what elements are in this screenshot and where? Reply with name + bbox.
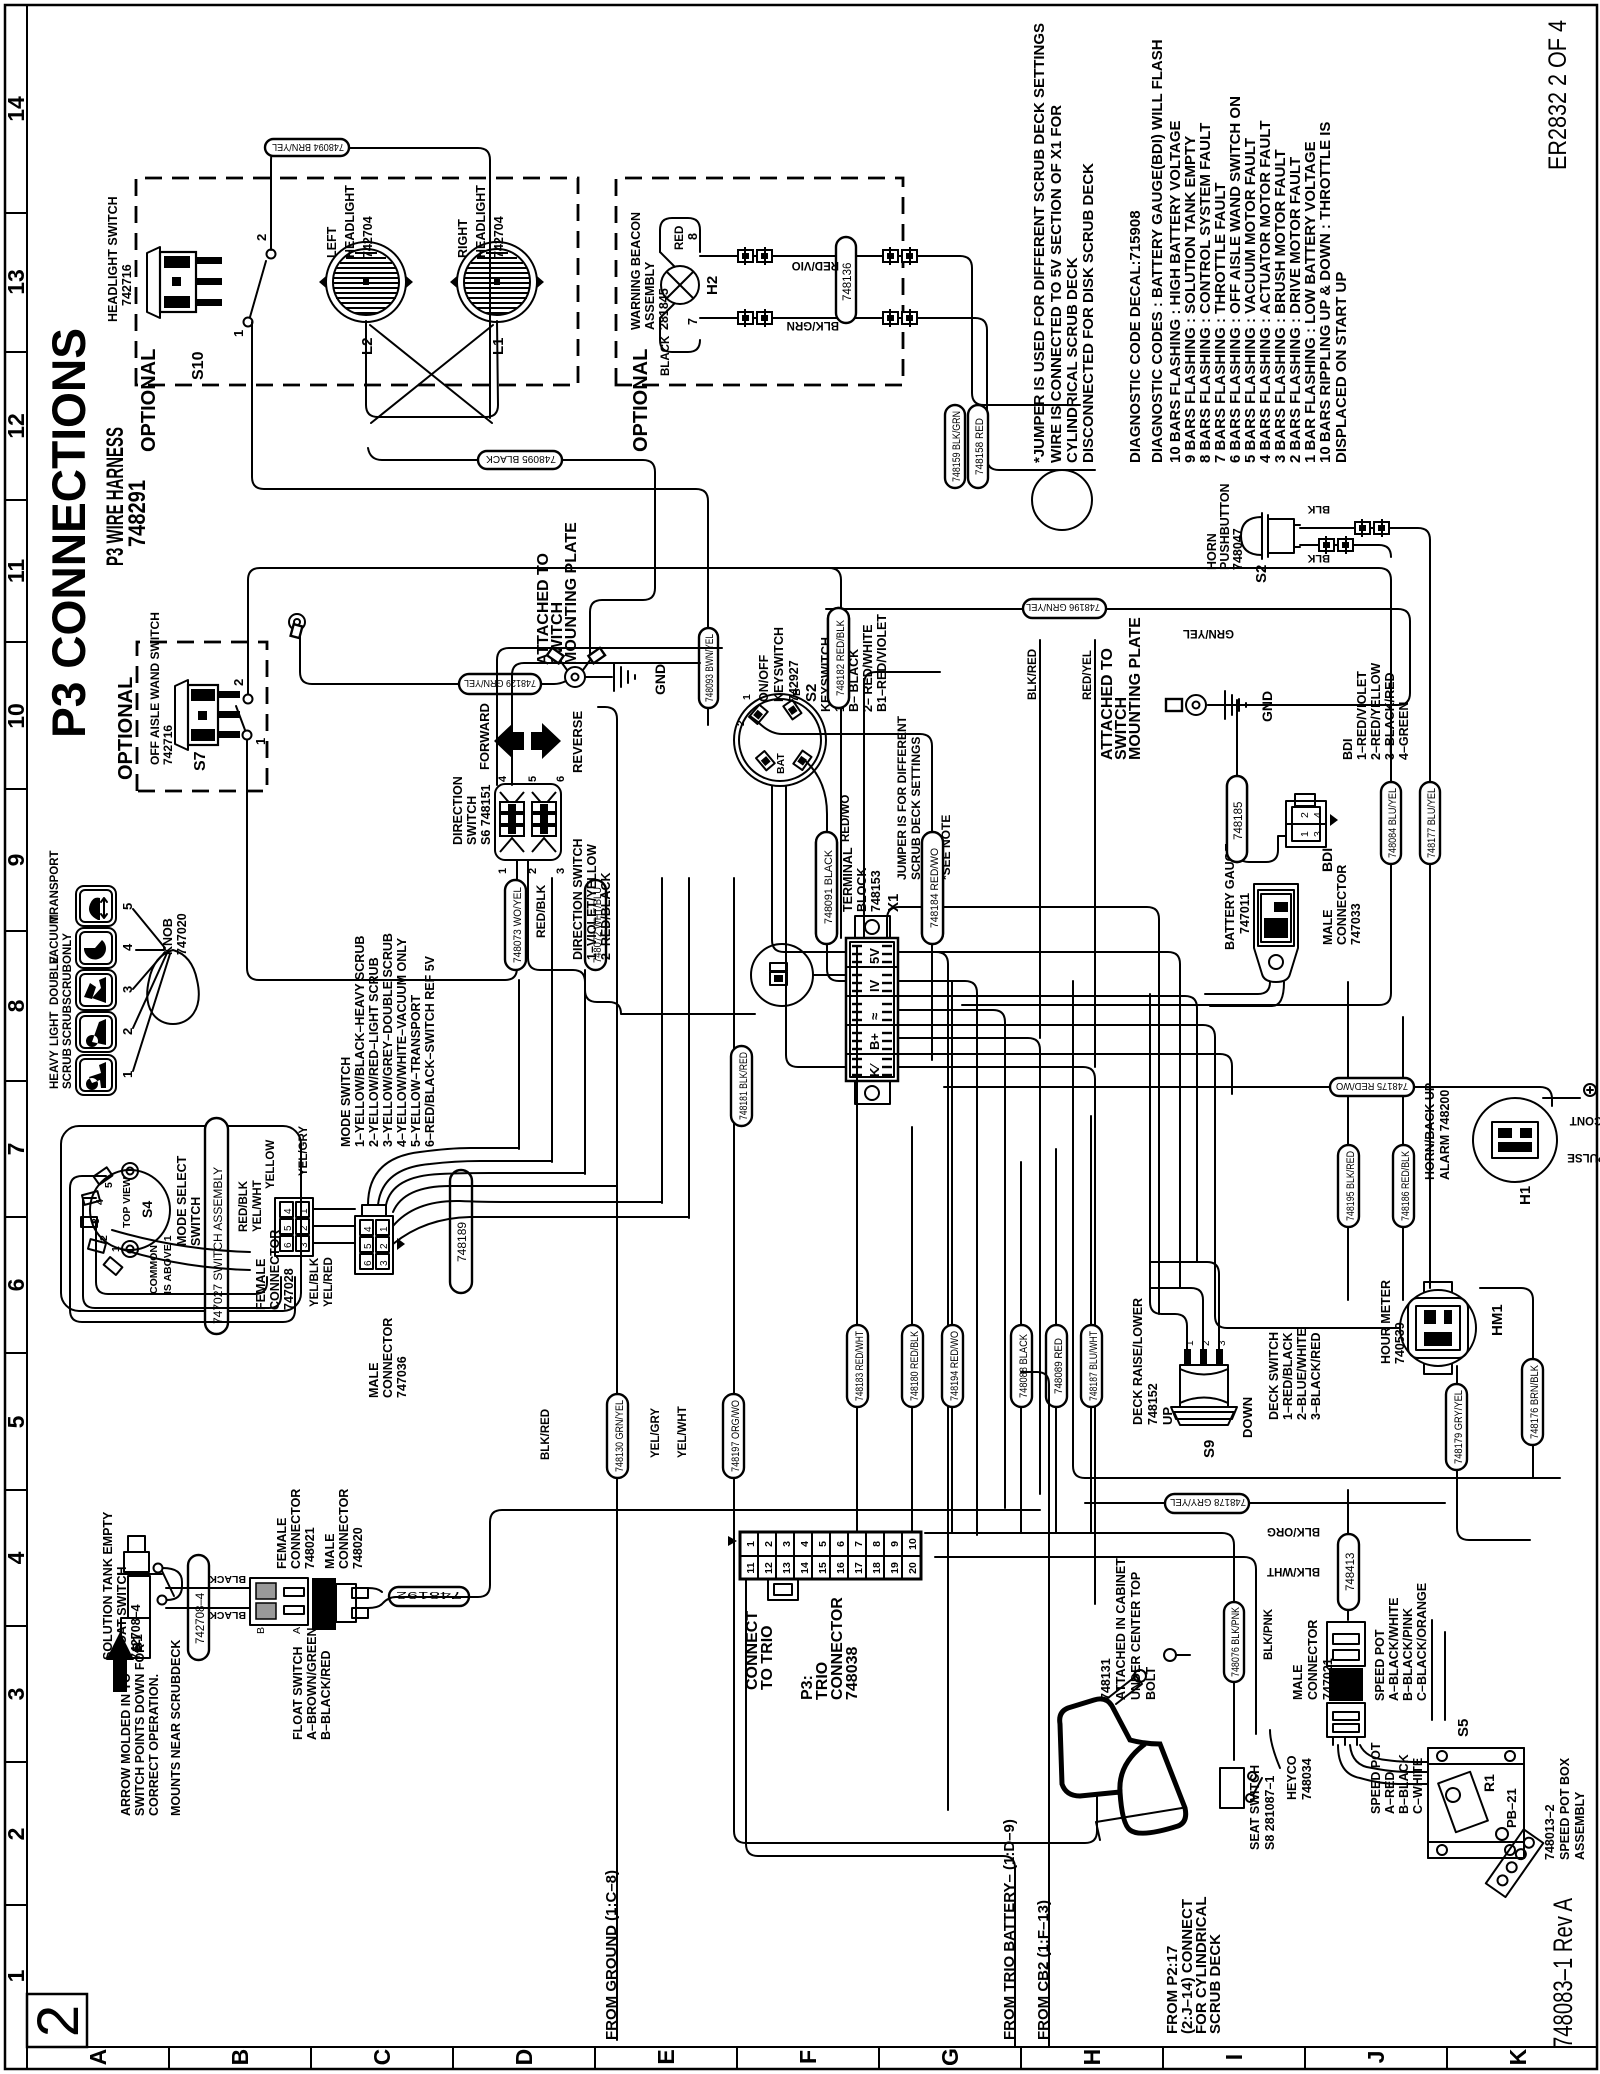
svg-text:3–BLACK/RED: 3–BLACK/RED (1383, 672, 1397, 760)
wire label 748185 (1227, 776, 1247, 862)
svg-text:2: 2 (527, 868, 539, 874)
svg-text:CONNECTOR: CONNECTOR (337, 1489, 351, 1569)
svg-text:ALARM 748200: ALARM 748200 (1438, 1090, 1452, 1180)
svg-text:S6 748151: S6 748151 (479, 784, 493, 845)
svg-text:1–YELLOW/BLACK–HEAVY SCRUB: 1–YELLOW/BLACK–HEAVY SCRUB (353, 936, 367, 1147)
hour meter HM1 (1379, 1280, 1506, 1374)
svg-text:2: 2 (763, 1541, 775, 1547)
svg-text:748131: 748131 (1099, 1658, 1113, 1700)
svg-text:KEYSWITCH: KEYSWITCH (772, 627, 786, 702)
svg-text:S9: S9 (1201, 1440, 1218, 1458)
748189 harness pill (450, 1170, 472, 1293)
svg-text:2: 2 (1299, 812, 1311, 818)
horn/backup alarm H1 (1423, 1083, 1600, 1205)
speed pot wires (1432, 1620, 1445, 1720)
svg-text:CONNECTOR: CONNECTOR (1306, 1620, 1320, 1700)
svg-text:ASSEMBLY: ASSEMBLY (643, 261, 657, 330)
battery gauge feed wires (1205, 982, 1284, 1006)
svg-text:1: 1 (253, 738, 268, 745)
svg-text:748192: 748192 (396, 1589, 462, 1601)
svg-text:11: 11 (745, 1562, 757, 1573)
svg-text:HM1: HM1 (1489, 1304, 1506, 1336)
svg-text:748095 BLACK: 748095 BLACK (486, 453, 556, 465)
svg-text:G: G (937, 2048, 963, 2066)
svg-text:TRANSPORT: TRANSPORT (49, 850, 61, 922)
svg-text:748073 WO/YEL: 748073 WO/YEL (512, 887, 524, 963)
svg-text:13: 13 (781, 1562, 793, 1574)
ruler row ticks and letters (A-K) (85, 2047, 1531, 2069)
svg-text:4: 4 (94, 1199, 106, 1205)
wire label 748158 RED (968, 405, 988, 488)
svg-text:PB–21: PB–21 (1504, 1788, 1519, 1828)
direction switch legend (571, 838, 613, 960)
svg-text:748083–1 Rev A: 748083–1 Rev A (1548, 1898, 1578, 2048)
from notes (603, 1819, 1224, 2040)
keyswitch gnd to ring terminal 2 (748196 GRN/YEL) (826, 609, 1410, 705)
svg-text:RIGHT: RIGHT (456, 219, 470, 258)
mounting bracket (1486, 1829, 1544, 1897)
svg-text:RED/BLK: RED/BLK (238, 1180, 250, 1232)
wire label 748180 RED/BLK (902, 1325, 923, 1407)
svg-text:BLACK: BLACK (660, 335, 672, 376)
svg-text:748291: 748291 (124, 480, 151, 547)
svg-text:748181 BLK/RED: 748181 BLK/RED (738, 1052, 750, 1120)
headlight cross wires (370, 325, 493, 423)
svg-text:4–YELLOW/WHITE–VACUUM ONLY: 4–YELLOW/WHITE–VACUUM ONLY (395, 937, 409, 1147)
svg-text:748177 BLU/YEL: 748177 BLU/YEL (1426, 788, 1438, 858)
svg-text:BOLT: BOLT (1144, 1667, 1158, 1700)
svg-text:GND: GND (652, 664, 668, 695)
svg-text:S7: S7 (192, 751, 209, 771)
S7 wire to bus (248, 568, 1391, 1005)
S7 contact 2 (244, 695, 253, 704)
svg-text:748186 RED/BLK: 748186 RED/BLK (1400, 1150, 1412, 1221)
svg-text:4: 4 (497, 775, 509, 782)
svg-text:DIRECTION SWITCH: DIRECTION SWITCH (571, 838, 585, 960)
svg-text:P3 CONNECTIONS: P3 CONNECTIONS (42, 328, 95, 738)
svg-text:C–BLACK/ORANGE: C–BLACK/ORANGE (1415, 1583, 1429, 1701)
svg-text:748178 GRY/YEL: 748178 GRY/YEL (1170, 1496, 1246, 1508)
svg-text:FEMALE: FEMALE (275, 1518, 289, 1569)
svg-text:CORRECT OPERATION.: CORRECT OPERATION. (147, 1674, 161, 1816)
wire label 748093 BWN/YEL (699, 628, 718, 708)
keyswitch S2 (734, 627, 826, 786)
float switch wires (166, 1588, 250, 1608)
svg-text:2–RED/BLACK: 2–RED/BLACK (599, 872, 613, 960)
svg-text:748194 RED/WO: 748194 RED/WO (949, 1331, 961, 1401)
svg-text:ASSEMBLY: ASSEMBLY (1573, 1791, 1587, 1860)
svg-text:HEADLIGHT: HEADLIGHT (474, 185, 488, 258)
svg-text:C: C (369, 2049, 395, 2066)
wire BDI connector to 748185/GRN-YEL (1237, 700, 1286, 862)
deck raise/lower switch S9 (1131, 1298, 1255, 1458)
svg-text:5–YELLOW–TRANSPORT: 5–YELLOW–TRANSPORT (409, 995, 423, 1147)
wire label 748073 WO/YEL (505, 880, 526, 970)
connector-to-connector wires (313, 1209, 355, 1243)
svg-text:747028: 747028 (282, 1268, 296, 1310)
svg-text:748152: 748152 (1146, 1383, 1160, 1425)
svg-text:15: 15 (817, 1562, 829, 1574)
svg-text:1: 1 (299, 1208, 310, 1214)
svg-text:748136: 748136 (842, 263, 854, 301)
svg-text:A–BROWN/GREEN: A–BROWN/GREEN (305, 1627, 319, 1740)
S7 switch blade (236, 706, 245, 730)
svg-text:S8 281087–1: S8 281087–1 (1263, 1776, 1277, 1850)
note circle (1032, 470, 1092, 530)
svg-text:BLK/WHT: BLK/WHT (1267, 1565, 1320, 1577)
S10 switch blade (250, 261, 266, 317)
svg-text:DOWN: DOWN (1240, 1397, 1255, 1438)
svg-text:748187 BLU/WHT: 748187 BLU/WHT (1088, 1331, 1100, 1401)
wire label 748194 RED/WO (942, 1325, 963, 1407)
svg-text:YEL/RED: YEL/RED (323, 1257, 335, 1307)
svg-text:B–BLACK/PINK: B–BLACK/PINK (1401, 1608, 1415, 1701)
horn pushbutton S2 (1205, 483, 1300, 583)
svg-text:7: 7 (3, 1143, 29, 1156)
svg-text:S4: S4 (139, 1201, 155, 1218)
svg-text:16: 16 (835, 1562, 847, 1574)
svg-text:5: 5 (283, 1225, 294, 1231)
ruler column ticks and numbers (1-14) (3, 96, 29, 1982)
S10 contact 1 (244, 318, 253, 327)
svg-text:B–BLACK/RED: B–BLACK/RED (319, 1650, 333, 1740)
svg-text:742704: 742704 (361, 216, 375, 258)
beacon feed wires to X1 area (960, 256, 1080, 405)
svg-text:748094 BRN/YEL: 748094 BRN/YEL (272, 141, 344, 153)
svg-text:SCRUB: SCRUB (62, 1005, 74, 1046)
reverse arrow (531, 723, 561, 759)
svg-text:5: 5 (3, 1415, 29, 1428)
svg-text:1–RED/VIOLET: 1–RED/VIOLET (1355, 671, 1369, 760)
svg-text:2–BLUE/WHITE: 2–BLUE/WHITE (1295, 1328, 1309, 1420)
svg-text:A: A (291, 1627, 303, 1634)
svg-text:SWITCH: SWITCH (189, 1197, 203, 1246)
male connector 747021 (1291, 1620, 1365, 1745)
svg-text:2: 2 (3, 1828, 29, 1841)
svg-text:748013–2: 748013–2 (1543, 1804, 1557, 1860)
svg-text:748089 RED: 748089 RED (1053, 1338, 1065, 1394)
left headlight L2 (319, 185, 413, 355)
svg-text:3: 3 (781, 1541, 793, 1547)
CB2 feed wire (1021, 1372, 1049, 2047)
svg-text:12: 12 (3, 413, 29, 439)
wire label 748182 RED/BLK (on S7 bus) (828, 608, 849, 708)
svg-text:748184 RED/WO: 748184 RED/WO (929, 848, 941, 928)
wire label 748182 RED/BLK (overlay) (828, 608, 849, 708)
wire S6 pin2 to 748072 (528, 861, 755, 1014)
svg-text:B1–RED/VIOLET: B1–RED/VIOLET (875, 614, 889, 712)
arrow molded note (106, 1632, 134, 1692)
wire label 748413 (1347, 1490, 1349, 1620)
svg-text:3–YELLOW/GREY–DOUBLE SCRUB: 3–YELLOW/GREY–DOUBLE SCRUB (381, 933, 395, 1147)
male connector 748020 (312, 1489, 368, 1630)
BDI male connector 747033 (1286, 794, 1363, 945)
svg-text:MALE: MALE (367, 1363, 381, 1398)
svg-text:BLACK: BLACK (209, 1609, 246, 1621)
wire label 748196 GRN/YEL (vertical pill) (1023, 599, 1106, 618)
svg-text:SWITCH POINTS DOWN FOR: SWITCH POINTS DOWN FOR (133, 1644, 147, 1816)
wire label 748186 RED/BLK (1402, 1017, 1404, 1300)
svg-text:HORN: HORN (1205, 533, 1219, 570)
svg-text:748020: 748020 (351, 1527, 365, 1569)
svg-text:J: J (1363, 2051, 1389, 2064)
svg-text:19: 19 (889, 1562, 901, 1574)
svg-text:ARROW MOLDED IN TO: ARROW MOLDED IN TO (119, 1673, 133, 1816)
wire S7 contact 1 to S6 / 748073 (247, 740, 517, 980)
svg-text:1–RED/BLACK: 1–RED/BLACK (1281, 1332, 1295, 1420)
right headlight L1 (450, 185, 544, 355)
svg-text:748153: 748153 (869, 870, 883, 912)
svg-text:17: 17 (853, 1562, 865, 1574)
wire label 748178 GRY/YEL (1085, 1502, 1445, 1504)
svg-text:747027 SWITCH ASSEMBLY: 747027 SWITCH ASSEMBLY (211, 1167, 225, 1324)
svg-text:2: 2 (379, 1243, 390, 1249)
svg-text:BDI: BDI (1341, 738, 1355, 760)
svg-text:6–RED/BLACK–SWITCH REF 5V: 6–RED/BLACK–SWITCH REF 5V (423, 955, 437, 1147)
main title (42, 328, 151, 738)
svg-text:748091 BLACK: 748091 BLACK (823, 849, 835, 924)
svg-text:HEYCO: HEYCO (1285, 1755, 1299, 1800)
svg-text:WARNING BEACON: WARNING BEACON (629, 212, 643, 330)
svg-text:2–YELLOW/RED–LIGHT SCRUB: 2–YELLOW/RED–LIGHT SCRUB (367, 957, 381, 1147)
svg-text:RED/BLK: RED/BLK (534, 884, 548, 938)
svg-text:6: 6 (835, 1541, 847, 1547)
float switch legend (291, 1627, 333, 1740)
svg-text:3: 3 (379, 1260, 390, 1266)
svg-text:BLK/PNK: BLK/PNK (1263, 1608, 1275, 1660)
svg-text:A: A (85, 2049, 111, 2066)
svg-text:ATTACHED IN CABINET: ATTACHED IN CABINET (1114, 1558, 1128, 1700)
svg-text:742716: 742716 (120, 264, 134, 306)
svg-text:OPTIONAL: OPTIONAL (630, 349, 652, 452)
svg-text:A–BLACK/WHITE: A–BLACK/WHITE (1387, 1598, 1401, 1701)
deck bus riser (1073, 981, 1085, 1478)
horn wires (1300, 545, 1391, 557)
headlight feed U wire (366, 321, 498, 417)
svg-text:748176 BRN/BLK: 748176 BRN/BLK (1529, 1364, 1541, 1439)
svg-text:A–RED: A–RED (1383, 1772, 1397, 1814)
svg-text:DECK SWITCH: DECK SWITCH (1267, 1332, 1281, 1420)
svg-text:2: 2 (26, 2005, 91, 2037)
svg-text:FEMALE: FEMALE (254, 1259, 268, 1310)
svg-text:E: E (653, 2049, 679, 2064)
svg-text:12: 12 (763, 1562, 775, 1574)
svg-text:748047: 748047 (1231, 528, 1245, 570)
svg-text:RED/YEL: RED/YEL (1082, 650, 1094, 700)
svg-text:BAT: BAT (775, 753, 787, 774)
ground assembly 2 (1099, 617, 1275, 760)
svg-text:4: 4 (120, 943, 135, 951)
mesh bus wires right of X1 (864, 672, 940, 938)
svg-text:BLACK: BLACK (209, 1573, 246, 1585)
svg-text:2: 2 (299, 1225, 310, 1231)
svg-text:748038: 748038 (844, 1647, 861, 1700)
svg-text:MODE SELECT: MODE SELECT (175, 1155, 189, 1246)
svg-text:748180 RED/BLK: 748180 RED/BLK (909, 1330, 921, 1401)
svg-text:TO TRIO: TO TRIO (759, 1625, 776, 1690)
svg-text:BLK: BLK (1307, 503, 1330, 515)
wire label 748187 BLU/WHT (1081, 1325, 1102, 1407)
svg-text:742716: 742716 (161, 725, 175, 765)
wire label 748129 GRN/YEL (vertical pill) (459, 674, 541, 694)
svg-text:1: 1 (745, 1541, 757, 1547)
svg-text:B: B (227, 2049, 253, 2066)
svg-text:1: 1 (497, 868, 509, 874)
svg-text:5: 5 (103, 1182, 115, 1188)
svg-text:747033: 747033 (1349, 903, 1363, 945)
svg-text:F: F (795, 2050, 821, 2064)
svg-text:7: 7 (686, 318, 700, 325)
wire label 748091 BLACK (816, 832, 837, 944)
svg-text:S10: S10 (190, 351, 207, 380)
svg-text:CONNECTOR: CONNECTOR (289, 1489, 303, 1569)
svg-text:CYLINDRICAL SCRUB DECK: CYLINDRICAL SCRUB DECK (1064, 257, 1081, 463)
svg-text:B+: B+ (867, 1033, 882, 1050)
svg-text:S5: S5 (1455, 1719, 1472, 1737)
svg-text:742704: 742704 (492, 216, 506, 258)
svg-text:747011: 747011 (1238, 893, 1252, 934)
svg-text:SPEED POT: SPEED POT (1369, 1742, 1383, 1814)
748131 note (1099, 1558, 1158, 1700)
beacon wires down (700, 256, 975, 318)
svg-text:MOUNTS NEAR SCRUBDECK: MOUNTS NEAR SCRUBDECK (169, 1640, 183, 1816)
svg-text:13: 13 (3, 269, 29, 295)
wire label 748136 (836, 237, 856, 323)
svg-text:REVERSE: REVERSE (570, 711, 585, 773)
S6 wires up to keyswitch area (497, 648, 722, 785)
attached-to ground assembly 1 (535, 522, 668, 695)
jumper circle (751, 944, 813, 1006)
svg-text:8: 8 (3, 999, 29, 1012)
sheet number corner box (26, 1994, 91, 2047)
svg-text:LIGHT: LIGHT (49, 1012, 61, 1047)
svg-text:742927: 742927 (787, 660, 801, 702)
male connector 747036 (355, 1205, 409, 1398)
svg-text:YEL/WHT: YEL/WHT (677, 1406, 689, 1458)
svg-text:MALE: MALE (1321, 910, 1335, 945)
X1 output bus wires (898, 952, 948, 1810)
svg-text:3: 3 (1312, 831, 1324, 837)
svg-text:GND: GND (1259, 691, 1275, 722)
wire label 748072 WHT/BLU (585, 880, 606, 970)
svg-text:B: B (255, 1627, 267, 1634)
mode switch legend (339, 933, 437, 1147)
wire label 748184 RED/WO (922, 832, 943, 944)
svg-text:BDI: BDI (1319, 848, 1335, 872)
svg-text:8: 8 (686, 233, 700, 240)
wire to 748095 BLACK (368, 448, 655, 655)
svg-text:IV: IV (867, 979, 882, 992)
svg-text:HEADLIGHT: HEADLIGHT (343, 185, 357, 258)
wire label 748091 BLACK (overlay) (816, 832, 837, 944)
svg-text:HEAVY: HEAVY (49, 1050, 61, 1089)
svg-text:R1: R1 (1481, 1774, 1497, 1792)
svg-text:748129 GRN/YEL: 748129 GRN/YEL (464, 677, 536, 689)
svg-text:1: 1 (1299, 831, 1311, 837)
svg-text:18: 18 (871, 1562, 883, 1574)
optional box 1 (headlight option) (136, 178, 578, 385)
svg-text:YEL/BLK: YEL/BLK (309, 1257, 321, 1307)
svg-text:DISCONNECTED FOR DISK SCRUB: DISCONNECTED FOR DISK SCRUB DECK (1080, 163, 1097, 463)
warning beacon assembly labels (629, 212, 721, 376)
742708-4 pill (188, 1555, 209, 1660)
solution tank empty float switch B1 (101, 1511, 182, 1660)
wire label 748183 RED/WHT (847, 1325, 868, 1407)
svg-text:UNDER CENTER TOP: UNDER CENTER TOP (1129, 1572, 1143, 1700)
svg-text:YEL/WHT: YEL/WHT (252, 1180, 264, 1232)
optional box 3 (off aisle wand switch S7) (137, 642, 267, 791)
svg-text:14: 14 (799, 1562, 811, 1574)
svg-text:748175 RED/WO: 748175 RED/WO (1336, 1080, 1408, 1092)
svg-text:748413: 748413 (1345, 1553, 1357, 1591)
S4 pin loop wires (70, 1176, 295, 1322)
wire label 748177 BLU/YEL (1429, 540, 1431, 1288)
svg-text:748159 BLK/GRN: 748159 BLK/GRN (951, 411, 963, 482)
wire keyswitch BAT to X1 (772, 786, 846, 952)
svg-text:11: 11 (3, 559, 29, 584)
wire keyswitch pin to X1 cell5 (786, 786, 846, 1067)
svg-text:MOUNTING PLATE: MOUNTING PLATE (563, 522, 580, 665)
svg-text:PUSHBUTTON: PUSHBUTTON (1218, 483, 1232, 570)
svg-text:2–RED/YELLOW: 2–RED/YELLOW (1369, 663, 1383, 760)
svg-text:1: 1 (741, 694, 753, 700)
svg-text:≈: ≈ (867, 1013, 882, 1020)
748197 ORG/WO long wire (733, 878, 735, 1831)
svg-text:748195 BLK/RED: 748195 BLK/RED (1345, 1151, 1357, 1221)
wire label 748094 BRN/YEL (265, 139, 349, 156)
svg-text:4: 4 (1312, 812, 1324, 818)
svg-text:SOLUTION TANK EMPTY: SOLUTION TANK EMPTY (101, 1511, 115, 1660)
wire keyswitch B to X1 (748091 BLACK) (802, 758, 846, 981)
svg-text:K: K (1505, 2048, 1531, 2065)
svg-text:3–BLACK/RED: 3–BLACK/RED (1309, 1332, 1323, 1420)
svg-text:8: 8 (871, 1541, 883, 1547)
wire S10-1 long run (252, 322, 708, 725)
svg-text:I: I (1221, 2054, 1247, 2060)
wire 748175 RED/WO (944, 1087, 1552, 1106)
bundle pills (607, 1394, 628, 1478)
svg-text:748130 GRN/YEL: 748130 GRN/YEL (614, 1400, 626, 1472)
female connector 747028 (254, 1198, 313, 1310)
svg-text:742708–4: 742708–4 (195, 1592, 207, 1644)
747027 switch assembly pill (205, 1118, 228, 1334)
svg-text:3: 3 (555, 868, 567, 874)
svg-text:1–VIOLET/YELLOW: 1–VIOLET/YELLOW (585, 844, 599, 960)
svg-text:748076 BLK/PNK: 748076 BLK/PNK (1230, 1606, 1242, 1677)
svg-text:7: 7 (853, 1541, 865, 1547)
wire label 748185 (overlay) (1227, 776, 1247, 862)
svg-text:6: 6 (363, 1260, 374, 1266)
svg-text:*JUMPER IS USED FOR DIFFER: *JUMPER IS USED FOR DIFFERENT SCRUB DECK… (1031, 23, 1048, 463)
diagnostic codes block (1127, 39, 1350, 463)
svg-text:CONNECTOR: CONNECTOR (268, 1230, 282, 1310)
svg-text:ER2832 2 OF 4: ER2832 2 OF 4 (1544, 20, 1572, 170)
svg-text:GRN/YEL: GRN/YEL (1183, 627, 1234, 639)
wire label 748176 BRN/BLK (1480, 1288, 1533, 1478)
jumper note (1031, 23, 1097, 463)
P3 trio connector 748038 (728, 1532, 921, 1700)
svg-text:5: 5 (363, 1243, 374, 1249)
svg-text:ON/OFF: ON/OFF (757, 654, 771, 702)
svg-text:RED: RED (674, 226, 686, 250)
svg-text:5V: 5V (867, 948, 882, 964)
wire X1 to bus (748182 RED/BLK) (829, 568, 841, 938)
svg-text:748196 GRN/YEL: 748196 GRN/YEL (1026, 601, 1100, 613)
mode connector fan-out wires (368, 1148, 519, 1205)
svg-text:OFF AISLE WAND SWITCH: OFF AISLE WAND SWITCH (148, 612, 162, 765)
S9 legend (1267, 1328, 1323, 1420)
wire label 748159 BLK/GRN (945, 405, 965, 488)
